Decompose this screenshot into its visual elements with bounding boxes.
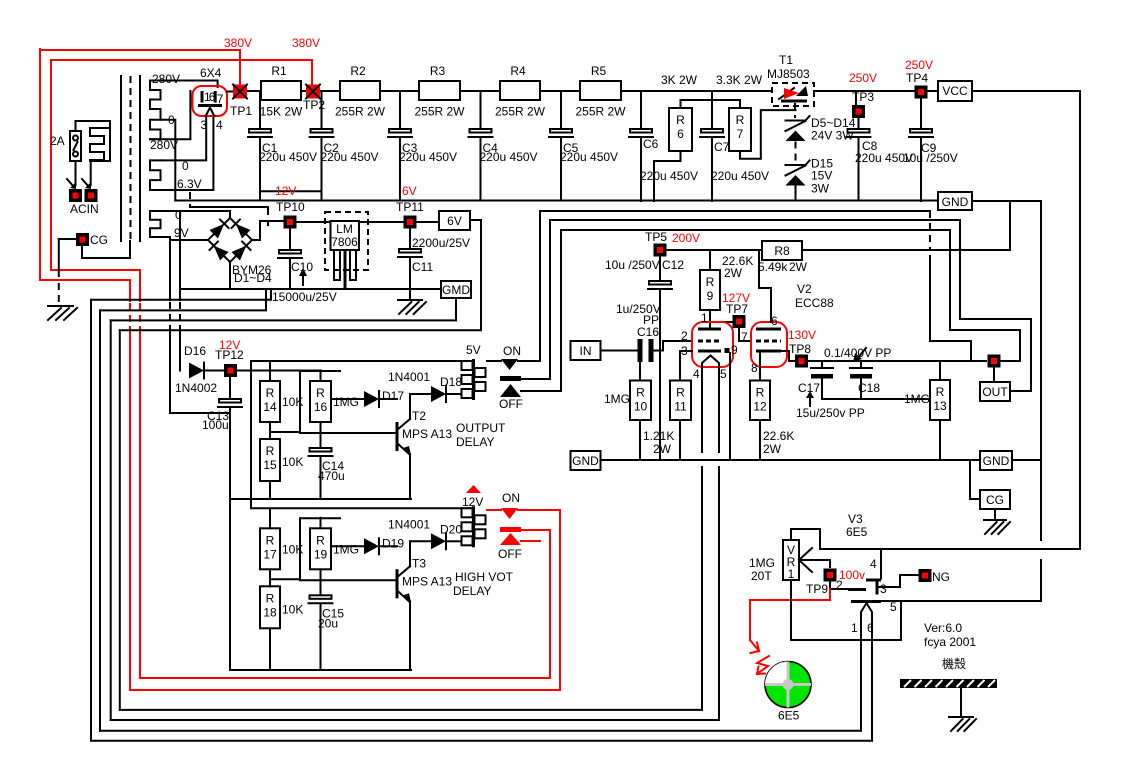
svg-text:R: R [736,113,745,127]
svg-text:20T: 20T [751,569,772,583]
resistor R15 [260,439,280,481]
svg-text:13: 13 [933,399,947,413]
wire heater bus V2 pin5 [111,719,719,721]
svg-text:380V: 380V [224,36,252,50]
wire OFF tri up [561,230,950,391]
test point TP7 [733,315,746,328]
svg-text:NG: NG [932,570,950,584]
wire 9V feed down to D16 [179,211,181,300]
wire 6.3V bottom tap to 6X4 heater pin4 [150,116,213,190]
svg-text:機殼: 機殼 [942,656,966,671]
svg-text:TP10: TP10 [276,200,305,214]
terminal CG chassis [76,233,89,246]
svg-text:4: 4 [870,557,877,571]
capacitor C15 [320,569,322,595]
svg-text:fcya 2001: fcya 2001 [924,635,976,649]
svg-text:R: R [936,385,945,399]
svg-text:10K: 10K [282,455,303,469]
svg-text:280V: 280V [152,72,180,86]
svg-text:TP7: TP7 [726,302,748,316]
wire TP8 to OUT node [809,360,986,362]
capacitor C18 [860,361,862,368]
svg-text:2: 2 [681,329,688,343]
test point TP12 [224,364,237,377]
contact OFF red triangle [500,533,521,545]
capacitor C8 [848,129,870,133]
svg-text:1N4001: 1N4001 [388,517,430,531]
svg-text:R: R [756,386,765,400]
wire emitter [409,454,411,499]
transformer secondary 9V [150,211,161,237]
contact OFF bar [500,376,521,381]
contact ON red [487,509,501,511]
svg-text:4: 4 [693,367,700,381]
svg-text:2W: 2W [763,442,782,456]
wire delay rail [251,360,472,362]
resistor R10 [630,381,651,421]
svg-text:5: 5 [720,367,727,381]
svg-text:7: 7 [737,127,744,141]
contact OFF red bar [500,527,521,532]
test point TP1 [233,85,247,99]
svg-text:220u 450V: 220u 450V [399,150,457,164]
svg-text:4: 4 [216,118,223,132]
svg-text:D20: D20 [440,522,462,536]
rectifier tube 6X4 [193,86,228,116]
wire cathode bottom box [791,580,901,640]
svg-text:10: 10 [634,400,648,414]
svg-text:6E5: 6E5 [846,525,868,539]
wire red left inner down [51,60,140,270]
diode D20 [410,540,431,542]
svg-text:CG: CG [90,233,108,247]
svg-text:3K 2W: 3K 2W [661,73,698,87]
svg-text:255R 2W: 255R 2W [414,105,465,119]
svg-text:1MG: 1MG [904,392,930,406]
wire TP9 red to arrow [750,589,830,640]
svg-text:1MG: 1MG [333,542,359,556]
resistor R1 [261,81,301,100]
svg-text:5: 5 [890,600,897,614]
wire 9V tap upper [161,210,181,212]
wire C9 [920,100,922,130]
svg-text:17: 17 [263,547,277,561]
wire [321,90,340,92]
wire R7 bottom to T1 base [740,110,796,159]
wire IN to C16 [601,350,638,352]
transformer primary winding [90,121,110,161]
test point TP9 [824,569,837,582]
wire OFF bar up [550,220,960,379]
svg-text:250V: 250V [905,58,933,72]
wire C7 top [711,91,713,129]
wire delay bottom [230,669,411,671]
svg-text:15: 15 [263,458,277,472]
wire C3 top [399,91,401,129]
wiper arrow [799,548,812,560]
svg-text:22.6K: 22.6K [763,429,794,443]
wire GND to right vertical [972,201,1041,540]
svg-text:2W: 2W [653,442,672,456]
wire bridge AC top [180,211,230,218]
svg-text:R3: R3 [430,64,446,78]
svg-text:11: 11 [674,400,687,414]
capacitor C16 [638,339,643,362]
zener diode D5-D14 [786,120,806,122]
wire left vertical 3 [110,320,112,720]
svg-text:1N4001: 1N4001 [388,370,430,384]
wire C4 bottom [480,137,482,201]
wire delay left vertical [250,361,252,507]
wire left vertical 1 [90,300,92,741]
capacitor C9 [910,129,932,133]
wire bridge DC- down [229,262,231,289]
resistor R5 [580,81,621,100]
svg-text:255R 2W: 255R 2W [575,105,626,119]
wire V2 heater pins [701,367,703,452]
capacitor C2 [311,129,333,133]
svg-text:12V: 12V [275,184,296,198]
svg-text:R: R [266,591,275,605]
6E5 anode bar [866,579,881,582]
svg-text:2A: 2A [50,134,65,148]
relay connector [472,506,475,547]
svg-text:OUTPUT: OUTPUT [456,421,506,435]
svg-text:6V: 6V [402,184,417,198]
svg-text:TP11: TP11 [396,200,424,214]
pin 9 shield [725,348,730,353]
wire node right [1001,360,1021,362]
wire red left outer down [40,49,130,280]
wire mains left [75,161,77,185]
regulator LM7806 [325,212,368,270]
wire rail T1 to VCC [814,90,938,92]
wire C5 bottom [560,137,562,201]
svg-text:D18: D18 [440,375,462,389]
wire C1 top [259,91,261,129]
svg-text:6X4: 6X4 [200,66,222,80]
relay connector [472,359,475,400]
svg-text:200V: 200V [672,231,700,245]
svg-text:9: 9 [731,343,738,357]
svg-text:ACIN: ACIN [70,202,99,216]
svg-text:GMD: GMD [442,283,470,297]
svg-text:10K: 10K [282,602,303,616]
svg-text:10u /250V: 10u /250V [903,151,958,165]
resistor R2 [340,81,380,100]
wire chassis ground [960,688,962,717]
wire TP7 [710,321,732,323]
V3 heater [861,603,872,640]
svg-text:T3: T3 [412,556,426,570]
resistor R17 [260,528,280,569]
svg-text:7: 7 [217,92,224,106]
svg-text:3: 3 [201,118,208,132]
test point TP2 [306,85,320,99]
svg-text:1MG: 1MG [333,395,359,409]
capacitor C4 [470,129,492,133]
svg-text:220u 450V: 220u 450V [259,150,317,164]
svg-text:R4: R4 [510,64,526,78]
wire C5 top [560,91,562,129]
svg-text:TP5: TP5 [645,230,667,244]
wire TP11 to 6V box [416,221,439,223]
svg-text:6: 6 [677,127,684,141]
wire CG to chassis ground [59,238,76,240]
svg-text:2W: 2W [789,260,808,274]
svg-text:5V: 5V [466,343,481,357]
terminal GND right [980,451,1012,470]
wire 280V top tap to 6X4 plate [161,81,218,88]
wire base [300,579,396,581]
svg-text:220u 450V: 220u 450V [321,150,379,164]
svg-text:15u/250v PP: 15u/250v PP [796,406,865,420]
wire pin9 to ground [729,353,731,460]
wire R8 right [802,202,1010,250]
wire V3 heater pin1 [860,640,862,731]
svg-text:2W: 2W [724,266,743,280]
wire R16 top [320,371,322,382]
wire audio ground bus [601,459,981,461]
transformer secondary 280V-0-280V [150,81,161,140]
svg-text:6E5: 6E5 [778,709,800,723]
svg-text:LM: LM [336,222,353,236]
wire delay rail [251,507,472,509]
wire C7 bottom [711,137,713,201]
test point TP3 [852,105,865,118]
terminal GND top [938,192,972,210]
ground chassis C11 [398,299,422,301]
wire C1 bottom [259,137,261,201]
wire 12V rail to LM7806 [296,221,330,223]
svg-text:100u: 100u [202,418,229,432]
wire collector [409,541,411,566]
wire base path [270,518,300,579]
svg-text:1N4002: 1N4002 [175,381,217,395]
svg-text:220u 450V: 220u 450V [640,169,698,183]
svg-text:R2: R2 [350,64,366,78]
terminal NG [919,569,932,582]
wire CG ground [994,509,996,520]
wire 0V to C13 [170,412,230,414]
svg-text:12: 12 [753,400,767,414]
svg-text:3W: 3W [811,182,830,196]
svg-text:R5: R5 [591,64,607,78]
svg-text:6: 6 [209,90,216,104]
svg-text:C6: C6 [643,137,659,151]
arrow C10 polarity [302,274,304,285]
svg-text:12V: 12V [462,495,483,509]
wire dashed stub below 6.3V tap [189,192,191,206]
6E5 electrode grid [848,588,866,591]
svg-text:9V: 9V [174,226,189,240]
svg-text:ON: ON [502,491,520,505]
diode D19 [331,545,364,547]
wire R18 bottom [269,628,271,670]
svg-text:100v: 100v [839,568,865,582]
test point TP10 [284,216,297,229]
wire R6 top [680,100,682,108]
red zigzag flash [757,656,769,674]
wire left vertical 2 [99,310,101,730]
svg-text:DELAY: DELAY [453,584,491,598]
svg-text:OFF: OFF [498,547,522,561]
terminal GND audio [571,451,601,470]
svg-text:D17: D17 [382,389,404,403]
wire base [300,432,396,434]
resistor R8 [762,241,802,260]
wire R15 bottom [269,481,271,499]
diode D17 [364,391,379,407]
svg-text:R8: R8 [774,244,790,258]
svg-text:V3: V3 [848,512,863,526]
wire D16 to TP12 [206,370,224,372]
arrow 15u [809,396,811,406]
svg-text:V2: V2 [797,282,812,296]
svg-text:C11: C11 [412,260,433,274]
svg-text:ECC88: ECC88 [795,296,834,310]
wire GND right link [1012,459,1041,461]
6E5 cathode bar [851,600,881,603]
test point TP11 [404,216,417,229]
diode D18 [410,393,431,395]
wire C3 bottom [399,137,401,201]
transistor T1 MJ8503 [772,83,814,106]
wire left vertical 4 [119,330,121,710]
svg-text:1MG: 1MG [749,556,775,570]
svg-text:1: 1 [851,621,858,635]
svg-text:D16: D16 [184,344,206,358]
wire 380V to TP1 (red) [40,50,240,84]
svg-text:8: 8 [751,361,758,375]
svg-text:470u: 470u [318,469,345,483]
bridge rectifier BYM26 D1~D4 [208,218,230,240]
wire heater return loops [91,289,271,300]
wire C2 top [321,91,323,129]
capacitor C17 [821,361,823,368]
svg-text:3.3K 2W: 3.3K 2W [716,73,763,87]
svg-text:VCC: VCC [942,84,968,98]
terminal VCC [938,81,972,101]
svg-text:C16: C16 [637,325,659,339]
resistor R14 [260,381,280,422]
zener diode D15 [786,164,806,166]
svg-text:7: 7 [741,330,748,344]
wire delay2 bottom extra [410,498,412,500]
svg-text:16: 16 [314,400,328,414]
svg-text:250V: 250V [849,71,877,85]
wire 9V tap lower down [150,237,170,300]
wire CG lower [82,241,130,258]
svg-text:C7: C7 [714,140,730,154]
svg-text:R: R [676,113,685,127]
capacitor C1 [249,129,271,133]
wire mains right [91,161,110,185]
svg-text:6: 6 [771,314,778,328]
wire feed [300,517,340,519]
wire cathode to GND loop [881,600,1041,602]
resistor R16 [310,381,331,422]
svg-text:6: 6 [867,621,874,635]
wire TP5 to R8 [668,249,763,251]
diode D18 [431,386,446,402]
wire divider junction [269,569,271,586]
svg-text:18: 18 [263,605,277,619]
resistor R18 [260,586,280,628]
svg-text:C12: C12 [662,258,684,272]
svg-text:5.49k: 5.49k [758,260,788,274]
svg-text:6V: 6V [447,214,462,228]
svg-text:T1: T1 [779,53,793,67]
svg-text:D19: D19 [382,536,404,550]
6E5 ray-control electrode pin3 [876,581,879,595]
triode V2b [751,322,787,367]
svg-text:19: 19 [314,547,328,561]
node OUT [988,355,1001,368]
svg-text:MPS A13: MPS A13 [402,427,452,441]
label 12V red [466,485,481,493]
svg-text:15000u/25V: 15000u/25V [272,290,337,304]
capacitor C11 [409,230,411,250]
wire TP3 drop [855,91,857,105]
svg-text:R: R [706,275,715,289]
capacitor C6 [630,129,652,133]
wire 6V feed to heater loop [120,220,481,330]
wire OFF red down [140,530,550,678]
indicator lamp 6E5 [765,662,811,708]
svg-text:Ver:6.0: Ver:6.0 [924,621,962,635]
wire 100V rail [820,548,1080,550]
svg-text:220u 450V: 220u 450V [560,150,618,164]
svg-text:TP9: TP9 [806,582,828,596]
resistor R4 [500,81,540,100]
svg-text:380V: 380V [292,36,320,50]
wire caps bottom [822,398,930,400]
wire [380,90,419,92]
triode V2a [692,322,733,367]
contact OFF triangle [500,384,521,397]
wire right link B [950,230,1020,361]
wire TP7 to V2b grid [739,329,751,341]
wire C6 top [640,91,642,129]
svg-text:TP1: TP1 [230,104,252,118]
wire R19 top [320,518,322,529]
capacitor C13 [229,378,231,399]
wire R13 [939,361,941,380]
diode D16 [189,363,204,379]
wire rail to T1 [621,90,772,92]
terminal GMD [441,281,471,298]
terminal IN [571,341,601,360]
terminal OUT [980,382,1010,401]
wire C16 to grid pin2 [654,341,692,351]
wire divider junction [269,422,271,439]
wire ON up [540,211,930,361]
svg-text:ON: ON [503,344,521,358]
diode D20 [431,533,446,549]
svg-text:6.3V: 6.3V [177,177,202,191]
wire 6X4 cathode to TP1 [227,91,233,93]
wire TP9 to grid bar [829,583,831,590]
test point TP4 [915,86,928,99]
capacitor C5 [550,129,572,133]
diode D19 [364,538,379,554]
svg-text:R: R [316,386,325,400]
wire heater bus V3 pin6 [91,740,872,742]
svg-text:1MG: 1MG [604,392,630,406]
svg-text:1: 1 [788,567,795,581]
wire [301,90,306,92]
